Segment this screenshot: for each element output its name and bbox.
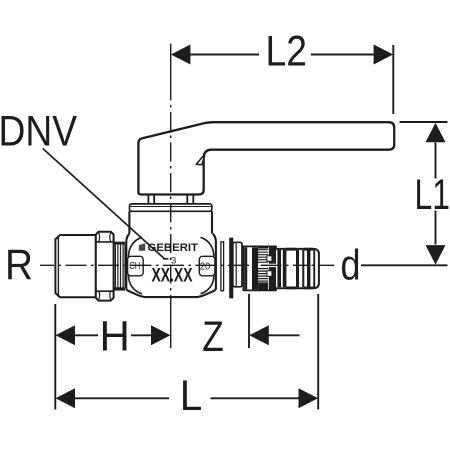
leader line from DNV to valve marking xyxy=(43,149,165,260)
svg-text:L1: L1 xyxy=(415,171,450,219)
left wing hook curves xyxy=(129,237,143,293)
svg-text:CH: CH xyxy=(129,261,140,272)
svg-text:Z: Z xyxy=(202,313,224,361)
marking tick and 3 xyxy=(163,258,169,260)
neck rings between nut and body xyxy=(114,242,125,245)
svg-text:d: d xyxy=(341,242,361,290)
vertical center line of valve stem xyxy=(170,44,172,349)
dimension L xyxy=(317,294,319,410)
right wing hook curves xyxy=(201,237,214,293)
press collar black ring xyxy=(230,238,233,298)
union nut xyxy=(96,232,114,301)
dimension L2 xyxy=(190,45,393,114)
valve body upper section xyxy=(129,211,212,233)
right wing press tab xyxy=(199,256,215,276)
bonnet plate xyxy=(130,204,212,211)
svg-text:20: 20 xyxy=(200,262,211,273)
horizontal center line of valve axis xyxy=(40,264,334,266)
press sleeve xyxy=(243,246,276,290)
sleeve indicator column with windows xyxy=(269,246,276,290)
dimension H xyxy=(54,304,56,410)
sleeve knurl ladder xyxy=(258,250,268,281)
svg-text:DNV: DNV xyxy=(0,108,77,156)
pipe spigot xyxy=(276,249,319,288)
dimension Z xyxy=(248,294,250,348)
valve body silhouette with side wings xyxy=(126,234,216,298)
handle thumb wedge xyxy=(196,154,205,165)
handle stem stub right xyxy=(187,195,193,204)
svg-text:R: R xyxy=(5,241,33,289)
svg-text:L: L xyxy=(180,372,203,420)
spigot heavy ring edges xyxy=(286,249,313,288)
handle lever xyxy=(138,122,394,194)
dimension L1 xyxy=(361,122,448,265)
threaded male end R xyxy=(55,235,95,297)
spigot ribs xyxy=(277,250,315,287)
handle stem stub left xyxy=(148,195,154,204)
svg-text:XX.XX: XX.XX xyxy=(152,266,193,287)
left wing press tab xyxy=(128,256,144,276)
svg-text:H: H xyxy=(100,313,130,361)
svg-text:L2: L2 xyxy=(266,28,308,76)
svg-text:GEBERIT: GEBERIT xyxy=(148,242,199,254)
right thin ring between body and collar xyxy=(221,242,224,291)
embossed Geberit logo xyxy=(139,243,146,251)
press collar white ring xyxy=(233,242,242,286)
